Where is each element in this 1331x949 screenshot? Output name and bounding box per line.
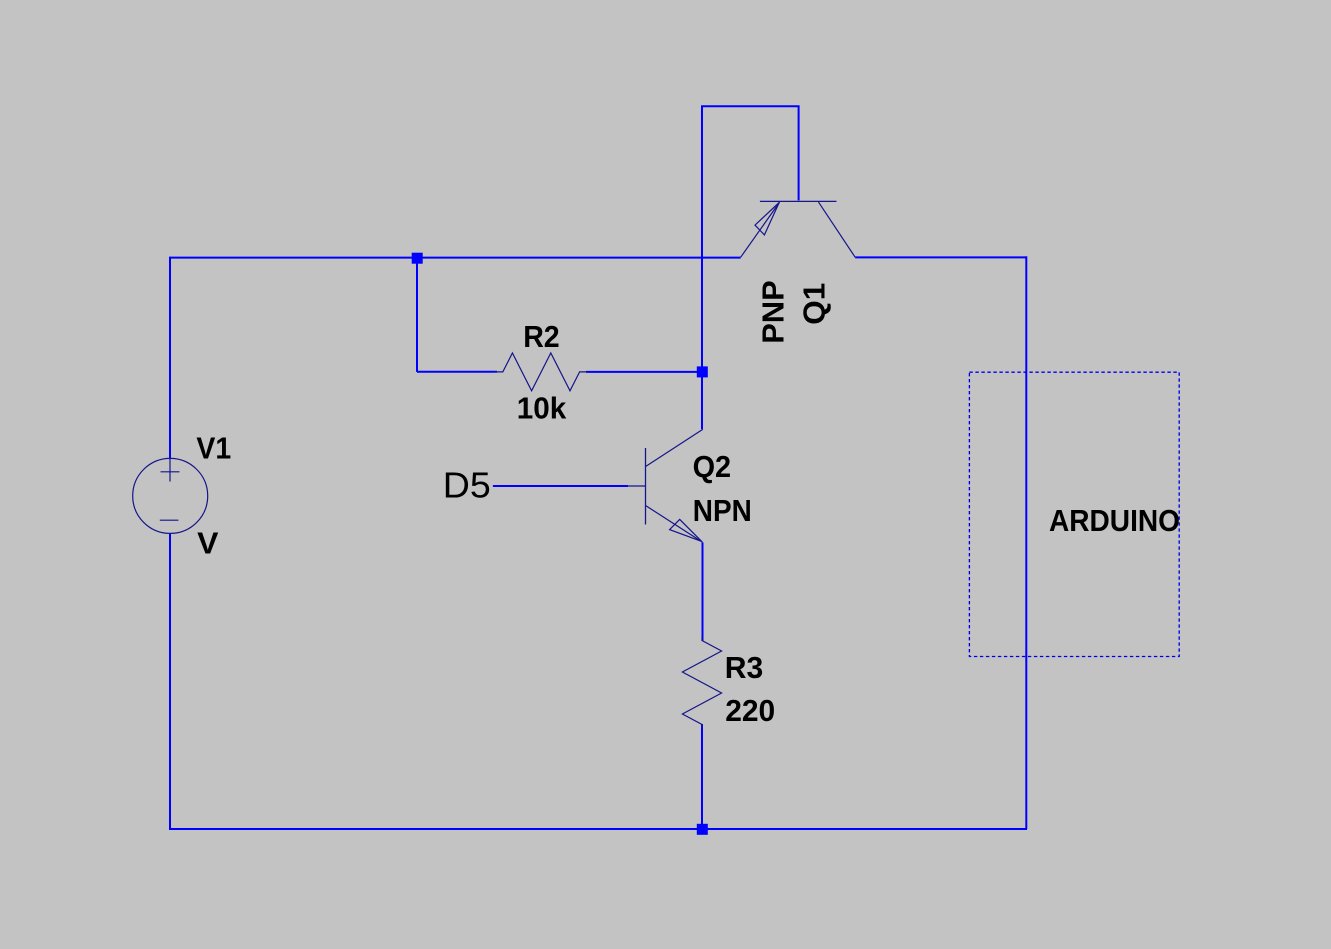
svg-text:PNP: PNP bbox=[756, 280, 790, 344]
svg-text:V1: V1 bbox=[196, 432, 231, 466]
svg-text:V: V bbox=[197, 527, 219, 561]
svg-text:NPN: NPN bbox=[693, 494, 752, 528]
svg-text:R2: R2 bbox=[523, 320, 560, 354]
svg-text:R3: R3 bbox=[725, 651, 764, 685]
svg-text:ARDUINO: ARDUINO bbox=[1049, 504, 1180, 538]
svg-text:D5: D5 bbox=[443, 465, 491, 506]
svg-text:10k: 10k bbox=[517, 392, 567, 426]
svg-text:Q2: Q2 bbox=[693, 450, 732, 484]
svg-text:220: 220 bbox=[725, 694, 775, 728]
svg-text:Q1: Q1 bbox=[798, 283, 832, 325]
